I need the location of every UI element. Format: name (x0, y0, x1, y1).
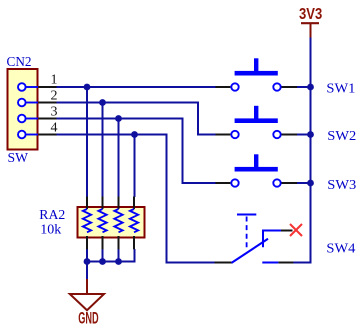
wire net2 from CN2 pin2 to SW2 (bend at x=198) (57, 103, 216, 135)
junction bus SW1 (307, 84, 314, 91)
wire net4 from CN2 pin4 to SW4 (bend at x=166.5) (57, 135, 215, 263)
resistor RA2 element 4 (130, 197, 138, 250)
junction gnd rail 3 (115, 258, 122, 265)
svg-text:SW4: SW4 (326, 242, 355, 257)
wire net1 horizontal from CN2 pin1 to SW1 (57, 86, 216, 88)
wire net4 vertical drop to RA2 pin4 (134, 135, 136, 198)
resistor RA2 element 1 (83, 197, 91, 250)
junction bus SW2 (307, 131, 314, 138)
ground GND (70, 279, 104, 328)
junction net1 at column 1 (84, 84, 91, 91)
no-ERC marker X on SW4 pin (290, 224, 302, 236)
pushbutton SW3 (216, 154, 298, 186)
wire SW3 right pin to bus (297, 182, 311, 184)
wire net3 vertical drop to RA2 pin3 (118, 119, 120, 198)
switch SW4 (215, 215, 294, 263)
wire gnd rail horizontal (87, 261, 136, 263)
junction net4 at column 4 (131, 131, 138, 138)
connector CN2 body (8, 69, 38, 150)
wire gnd rail down to GND symbol (86, 262, 88, 280)
resistor RA2 element 2 (98, 197, 106, 250)
wire SW2 right pin to bus (297, 134, 311, 136)
junction gnd rail 1 (84, 258, 91, 265)
svg-text:1: 1 (51, 73, 58, 88)
svg-text:SW1: SW1 (326, 81, 355, 96)
connector CN2 pin 1 (18, 83, 57, 91)
power port 3V3 (299, 6, 322, 38)
svg-text:RA2: RA2 (39, 208, 65, 223)
svg-text:SW2: SW2 (327, 129, 356, 144)
wire 3V3 bus vertical with bend to SW4 bottom pin (293, 37, 311, 263)
pushbutton SW2 (216, 106, 298, 138)
svg-text:SW: SW (8, 151, 29, 166)
connector CN2 pin 3 (18, 115, 57, 123)
svg-text:GND: GND (78, 309, 98, 328)
resistor array RA2 body (78, 207, 145, 238)
resistor RA2 element 3 (114, 197, 122, 250)
svg-text:SW3: SW3 (327, 178, 356, 193)
svg-text:CN2: CN2 (7, 55, 32, 70)
svg-text:4: 4 (51, 121, 58, 136)
wire net2 vertical drop to RA2 pin2 (102, 103, 104, 198)
wire net1 vertical drop to RA2 pin1 (86, 87, 88, 197)
svg-text:3: 3 (51, 105, 58, 120)
svg-text:2: 2 (51, 89, 58, 104)
junction gnd rail 2 (99, 258, 106, 265)
wire RA2 bottom pin4 to gnd rail (134, 249, 136, 262)
junction net3 at column 3 (115, 115, 122, 122)
junction net2 at column 2 (99, 99, 106, 106)
pushbutton SW1 (216, 58, 298, 90)
wire SW1 right pin to bus (297, 86, 311, 88)
connector CN2 pin 2 (18, 99, 57, 107)
wire net3 from CN2 pin3 to SW3 (bend at x=182.5) (57, 119, 216, 184)
wire RA2 bottom pin1 to gnd rail (86, 249, 88, 262)
connector CN2 pin 4 (18, 131, 57, 139)
wire RA2 bottom pin2 to gnd rail (102, 249, 104, 262)
svg-text:10k: 10k (40, 223, 61, 238)
junction bus SW3 (307, 180, 314, 187)
wire RA2 bottom pin3 to gnd rail (118, 249, 120, 262)
svg-text:3V3: 3V3 (299, 6, 322, 23)
